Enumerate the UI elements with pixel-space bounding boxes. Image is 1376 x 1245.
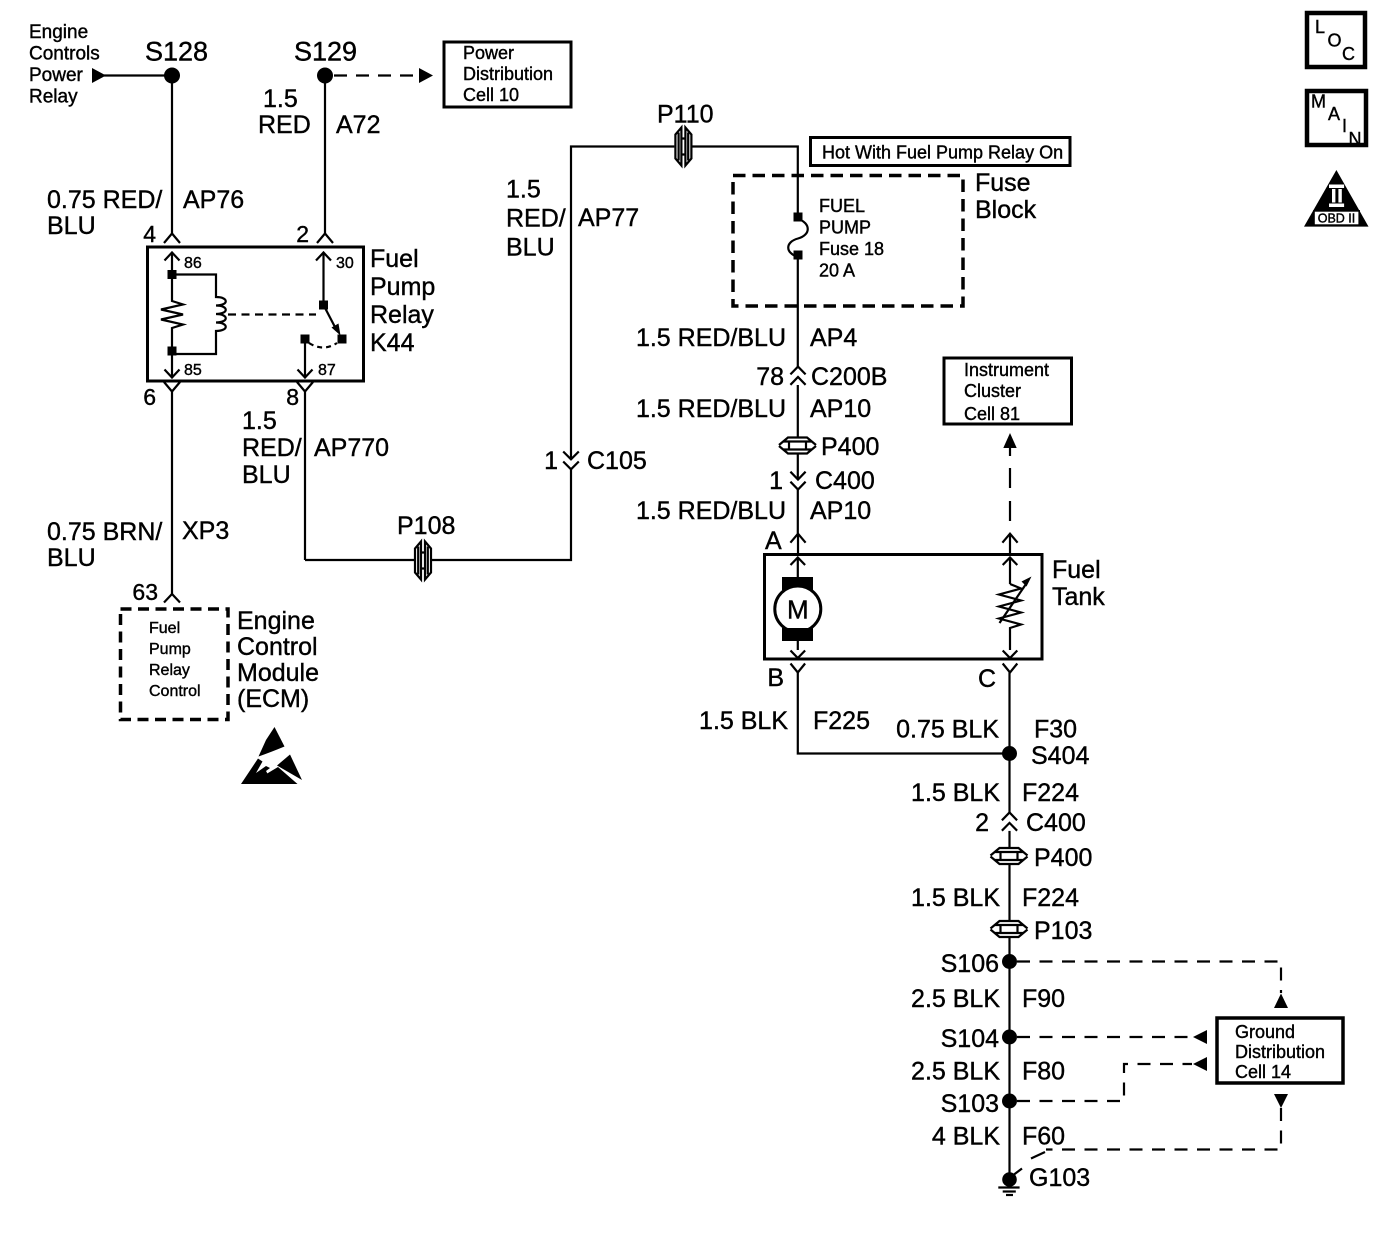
svg-text:AP10: AP10 [810,395,871,423]
connector C400 chevrons (down) [790,472,805,490]
switch armature [324,305,341,336]
svg-text:Distribution: Distribution [463,64,553,84]
svg-text:Pump: Pump [370,273,435,301]
label FUEL PUMP Fuse 18 20 A [819,196,884,281]
relay K44 box [148,247,364,381]
svg-text:C400: C400 [1026,809,1086,837]
svg-text:P103: P103 [1034,917,1092,945]
svg-text:F90: F90 [1022,985,1065,1013]
svg-text:20 A: 20 A [819,261,855,281]
svg-text:86: 86 [184,255,202,272]
svg-text:Module: Module [237,659,319,687]
svg-text:RED/: RED/ [506,205,566,233]
svg-text:2.5 BLK: 2.5 BLK [911,1058,1000,1086]
switch contact dot [338,335,347,344]
svg-text:BLU: BLU [47,544,96,572]
svg-text:1.5 BLK: 1.5 BLK [911,779,1000,807]
svg-text:4: 4 [143,221,156,247]
svg-text:0.75 RED/: 0.75 RED/ [47,186,162,214]
svg-text:A72: A72 [336,111,380,139]
svg-text:Cell 14: Cell 14 [1235,1062,1291,1082]
svg-text:P108: P108 [397,512,455,540]
svg-text:Cluster: Cluster [964,381,1021,401]
pin 87 contact dot [301,335,310,344]
fuel pump motor M [775,577,821,641]
label Engine Control Module (ECM) [237,607,319,713]
svg-text:2: 2 [975,809,989,837]
svg-text:S129: S129 [294,37,357,67]
arrow from Engine Controls Power Relay [92,68,172,83]
connector C105 chevrons [563,452,579,470]
svg-text:1.5: 1.5 [263,85,298,113]
svg-text:85: 85 [184,362,202,379]
wire to C400 [797,454,799,479]
value label 1.5 RED [258,85,311,139]
relay pin 30 arrow [316,253,331,302]
svg-text:AP77: AP77 [578,204,639,232]
fuel sender arrow bottom [1003,631,1018,658]
relay coil resistor [161,279,183,351]
ESD sensitive device symbol [241,727,302,784]
svg-text:Controls: Controls [29,44,100,65]
label Fuel Tank [1052,556,1105,611]
pin 6 connector chevron [164,382,180,392]
svg-text:78: 78 [756,363,784,391]
svg-text:XP3: XP3 [182,517,229,545]
svg-text:BLU: BLU [506,234,555,262]
wire A72 (S129 to relay pin 2) [324,76,326,234]
pin A connector chevron [790,534,805,543]
svg-text:AP4: AP4 [810,324,857,352]
connector P108 symbol [415,542,431,580]
wire AP770 (pin 8 down) [304,392,306,561]
pin C connector chevron [1003,664,1018,673]
switch pivot dot [319,301,328,310]
dashed wire to Instrument Cluster with arrow [1003,433,1016,533]
connector C200B chevrons [790,367,805,385]
relay pin 87 arrow [298,343,313,378]
svg-text:O: O [1328,31,1342,51]
OBD II icon [1304,170,1369,227]
connector P110 symbol [675,128,691,166]
arrowhead to Power Distribution [419,68,433,83]
svg-text:Fuel: Fuel [149,620,180,637]
svg-text:C400: C400 [815,467,875,495]
svg-text:Cell 81: Cell 81 [964,404,1020,424]
fuel pump motor arrow top [791,558,806,578]
svg-text:C200B: C200B [811,363,887,391]
svg-text:C: C [978,665,996,693]
svg-text:Cell 10: Cell 10 [463,85,519,105]
dashed contact arc [309,343,337,348]
pin 2 connector chevron [317,234,333,244]
svg-text:P400: P400 [1034,844,1092,872]
svg-text:Relay: Relay [370,301,434,329]
svg-text:L: L [1315,17,1325,37]
svg-text:Fuse 18: Fuse 18 [819,239,884,259]
svg-text:1.5 RED/BLU: 1.5 RED/BLU [636,497,786,525]
svg-text:Relay: Relay [149,662,190,679]
pin 8 connector chevron [297,382,313,392]
svg-text:F60: F60 [1022,1123,1065,1151]
fuse element FUEL PUMP Fuse 18 20A [788,219,808,257]
ground G103 [998,1164,1090,1195]
label Fuel Pump Relay K44 [370,245,435,357]
svg-text:F224: F224 [1022,884,1079,912]
svg-text:2: 2 [296,221,309,247]
svg-text:Fuse: Fuse [975,169,1031,197]
svg-text:Block: Block [975,196,1037,224]
fuse terminal dot bottom [794,251,803,260]
svg-text:Fuel: Fuel [370,245,419,273]
wire F30 (C to S404) and main ground wire [1008,673,1010,813]
box Power Distribution Cell 10 [444,42,571,107]
node S104 [941,1025,1017,1053]
svg-text:P110: P110 [657,101,714,129]
relay pin 85 arrow [165,355,180,378]
grommet P103 symbol [991,921,1028,937]
svg-text:Control: Control [149,683,201,700]
svg-text:Control: Control [237,633,318,661]
svg-text:C105: C105 [587,447,647,475]
svg-text:1.5 RED/BLU: 1.5 RED/BLU [636,324,786,352]
svg-text:S106: S106 [941,950,999,978]
svg-text:N: N [1349,129,1362,149]
svg-text:F30: F30 [1034,716,1077,744]
svg-text:S404: S404 [1031,742,1089,770]
svg-text:K44: K44 [370,329,415,357]
dashed wire S106 to Ground Distribution [1017,962,1288,1009]
dashed wire S129 to Power Distribution [334,74,419,76]
wire AP4 (fuse to C200B) [797,256,799,367]
label Engine Controls Power Relay [29,22,100,108]
wire F225 (B to S404) [798,673,1010,754]
box Instrument Cluster Cell 81 [944,358,1072,424]
svg-text:Engine: Engine [237,607,315,635]
svg-text:FUEL: FUEL [819,196,865,216]
svg-text:1.5: 1.5 [242,407,277,435]
value label 1.5 RED/BLU [242,407,302,489]
svg-text:F224: F224 [1022,779,1079,807]
node S129 [294,37,357,84]
wire AP10 upper [797,385,799,437]
fuel sender arrow top [1003,558,1018,585]
dashed actuation link [228,313,316,315]
dashed wire S104 to Ground Distribution [1017,1030,1207,1044]
fuel pump motor arrow bottom [791,641,806,658]
svg-text:30: 30 [336,255,354,272]
svg-text:8: 8 [286,384,299,410]
svg-text:A: A [765,527,782,555]
wire to P108 and up [305,559,414,561]
node S103 [941,1090,1017,1118]
box Hot With Fuel Pump Relay On [811,138,1071,166]
svg-text:Pump: Pump [149,641,191,658]
svg-text:1.5: 1.5 [506,176,541,204]
grommet P400 upper symbol [779,438,816,454]
svg-text:Engine: Engine [29,22,88,43]
dashed wire S103 to Ground Distribution [1017,1057,1207,1101]
svg-text:AP10: AP10 [810,497,871,525]
svg-text:2.5 BLK: 2.5 BLK [911,985,1000,1013]
junction dot (86) [168,270,177,279]
junction dot (85) [168,347,177,356]
svg-text:F225: F225 [813,707,870,735]
relay coil [172,275,226,355]
svg-text:P400: P400 [821,433,879,461]
LOC icon [1307,13,1365,67]
svg-text:Distribution: Distribution [1235,1042,1325,1062]
MAIN icon [1307,91,1366,149]
svg-text:I: I [1342,116,1347,136]
svg-text:PUMP: PUMP [819,218,871,238]
svg-text:F80: F80 [1022,1058,1065,1086]
svg-text:(ECM): (ECM) [237,685,309,713]
node S106 [941,950,1017,978]
svg-text:C: C [1342,44,1355,64]
svg-text:OBD II: OBD II [1318,211,1356,225]
svg-text:Relay: Relay [29,87,78,108]
node S404 [1002,742,1089,770]
svg-text:6: 6 [143,384,156,410]
ECM dashed box [121,609,229,720]
relay pin 86 arrow [165,253,180,275]
fuse block dashed box [733,176,963,307]
wire AP77 up to top run [571,147,674,459]
box Ground Distribution Cell 14 [1217,1018,1343,1083]
grommet P400 lower symbol [991,848,1028,864]
pin B connector chevron [791,664,806,673]
svg-text:Ground: Ground [1235,1022,1295,1042]
svg-text:87: 87 [318,362,336,379]
svg-text:0.75 BRN/: 0.75 BRN/ [47,518,162,546]
wire AP76 (S128 to relay pin 4) [171,76,173,234]
svg-text:A: A [1328,104,1340,124]
svg-text:BLU: BLU [242,461,291,489]
svg-text:S103: S103 [941,1090,999,1118]
svg-text:Instrument: Instrument [964,360,1049,380]
stub into tank (C side) [1009,535,1011,555]
svg-text:S128: S128 [145,37,208,67]
svg-text:Power: Power [29,65,84,86]
fuel sender variable resistor [999,584,1021,631]
svg-text:4 BLK: 4 BLK [932,1123,1000,1151]
label Fuel Pump Relay Control [149,620,201,700]
svg-text:Hot With Fuel Pump Relay On: Hot With Fuel Pump Relay On [822,143,1063,163]
svg-text:1: 1 [769,467,783,495]
svg-text:1.5 BLK: 1.5 BLK [911,884,1000,912]
label Fuse Block [975,169,1037,224]
fuse terminal dot top [794,213,803,222]
svg-text:S104: S104 [941,1025,999,1053]
fuel tank box [765,555,1043,660]
svg-text:BLU: BLU [47,212,96,240]
fuel tank sender connector chevron [1002,534,1017,543]
svg-text:1: 1 [544,447,558,475]
svg-text:Tank: Tank [1052,583,1105,611]
svg-text:1.5 RED/BLU: 1.5 RED/BLU [636,395,786,423]
svg-text:RED/: RED/ [242,434,302,462]
svg-text:0.75 BLK: 0.75 BLK [896,716,999,744]
value label 0.75 BRN/BLU [47,518,162,572]
svg-text:AP770: AP770 [314,434,389,462]
value label 1.5 RED/BLU (AP77) [506,176,566,262]
connector C400 chevrons (bottom, up) [1002,813,1017,831]
svg-text:M: M [1311,92,1326,112]
pin 4 connector chevron [164,234,180,244]
svg-text:M: M [787,595,809,625]
svg-text:Power: Power [463,43,514,63]
dashed wire Ground Distribution to G103 [1031,1094,1288,1159]
svg-text:G103: G103 [1029,1164,1090,1192]
svg-text:1.5 BLK: 1.5 BLK [699,707,788,735]
pin 63 connector chevron [164,594,180,603]
value label 0.75 RED/BLU [47,186,162,240]
wire AP10 lower [797,490,799,534]
stub into tank [797,535,799,555]
variable resistor arrow [1000,577,1032,624]
svg-text:RED: RED [258,111,311,139]
svg-text:AP76: AP76 [183,186,244,214]
node S128 [145,37,208,84]
svg-text:63: 63 [132,579,158,605]
svg-text:B: B [767,664,784,692]
svg-text:Fuel: Fuel [1052,556,1101,584]
wire XP3 [171,392,173,595]
